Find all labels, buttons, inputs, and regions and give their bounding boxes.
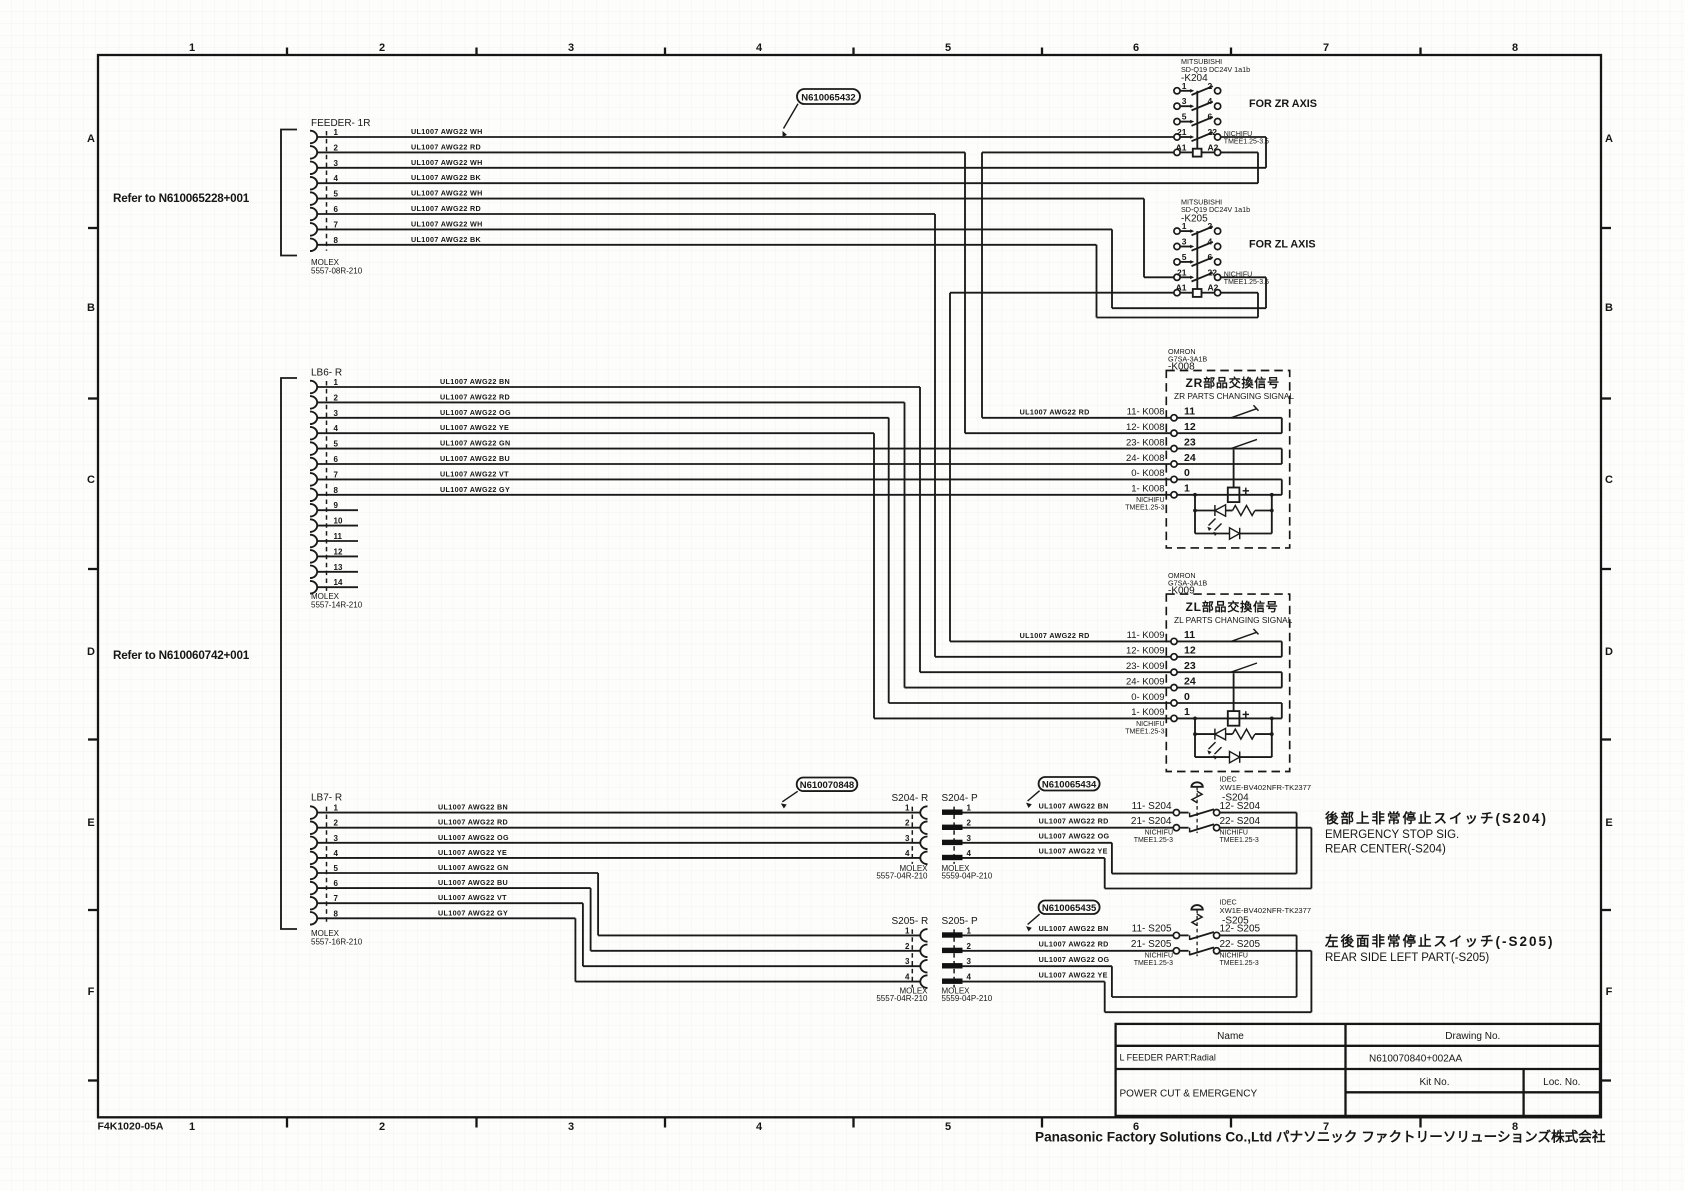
svg-text:UL1007 AWG22 BK: UL1007 AWG22 BK (411, 235, 482, 244)
svg-text:5557-16R-210: 5557-16R-210 (311, 938, 363, 947)
svg-text:XW1E-BV402NFR-TK2377: XW1E-BV402NFR-TK2377 (1220, 783, 1312, 792)
svg-text:UL1007 AWG22 WH: UL1007 AWG22 WH (411, 189, 483, 198)
svg-text:11- K008: 11- K008 (1127, 406, 1165, 417)
svg-text:24- K008: 24- K008 (1126, 453, 1165, 464)
svg-text:TMEE1.25-3: TMEE1.25-3 (1134, 837, 1173, 844)
svg-text:UL1007 AWG22 YE: UL1007 AWG22 YE (1039, 847, 1108, 856)
wire net S204 pin12 return loop (1111, 843, 1113, 874)
svg-text:POWER CUT & EMERGENCY: POWER CUT & EMERGENCY (1120, 1089, 1258, 1100)
svg-text:TMEE1.25-3: TMEE1.25-3 (1134, 960, 1173, 967)
relay K008 terminals (1171, 415, 1177, 421)
svg-text:11: 11 (1184, 629, 1195, 641)
svg-text:E: E (87, 817, 94, 829)
wire net LB7 pin7 to S205-R pin3 (VT) (317, 902, 583, 904)
svg-text:F4K1020-05A: F4K1020-05A (98, 1121, 164, 1133)
svg-text:N610070840+002AA: N610070840+002AA (1369, 1054, 1462, 1065)
svg-text:REAR SIDE LEFT PART(-S205): REAR SIDE LEFT PART(-S205) (1325, 952, 1489, 964)
svg-text:UL1007 AWG22 OG: UL1007 AWG22 OG (440, 408, 511, 417)
svg-text:UL1007 AWG22 RD: UL1007 AWG22 RD (411, 204, 481, 213)
svg-text:FOR ZL AXIS: FOR ZL AXIS (1249, 238, 1316, 250)
wire net LB6 pin2 to K009 pin24 (RD) (317, 401, 905, 403)
bracket for FEEDER-1R (281, 130, 297, 256)
svg-text:1: 1 (905, 926, 910, 935)
svg-text:S204- R: S204- R (892, 793, 929, 804)
svg-text:ZL部品交換信号: ZL部品交換信号 (1186, 599, 1279, 614)
svg-text:2: 2 (379, 1121, 385, 1133)
svg-text:NICHIFU: NICHIFU (1145, 952, 1173, 959)
svg-text:7: 7 (334, 220, 339, 229)
svg-text:21- S204: 21- S204 (1131, 816, 1172, 827)
svg-text:UL1007 AWG22 BN: UL1007 AWG22 BN (440, 377, 510, 386)
svg-text:2: 2 (905, 942, 910, 951)
callout N610065432 (797, 89, 860, 104)
relay K009 common 0-1 wiring (1177, 702, 1282, 704)
svg-text:NICHIFU: NICHIFU (1145, 829, 1173, 836)
svg-text:UL1007 AWG22 RD: UL1007 AWG22 RD (1039, 817, 1109, 826)
relay K008 contact 11-12 (1177, 417, 1282, 419)
emergency stop switch S205 mushroom head (1191, 905, 1202, 910)
svg-text:UL1007 AWG22 BU: UL1007 AWG22 BU (438, 878, 508, 887)
svg-text:5: 5 (334, 864, 339, 873)
svg-text:UL1007 AWG22 GY: UL1007 AWG22 GY (438, 908, 508, 917)
wire net LB6 pin5 to K008 pin23 (GN) (317, 448, 1171, 450)
relay K009 reverse diode branch (1195, 756, 1230, 758)
svg-text:3: 3 (1182, 96, 1187, 106)
svg-text:UL1007 AWG22 OG: UL1007 AWG22 OG (1039, 832, 1110, 841)
svg-text:0- K008: 0- K008 (1131, 468, 1164, 479)
wire net W8 FEEDER pin8 to K205 coil A2 (BK) (317, 244, 1097, 246)
svg-text:2: 2 (1208, 81, 1213, 91)
svg-text:LB7- R: LB7- R (311, 793, 342, 804)
svg-text:C: C (87, 474, 95, 486)
svg-text:2: 2 (334, 819, 339, 828)
svg-text:4: 4 (905, 973, 910, 982)
wire net W7 FEEDER pin7 to K205 pin22 (WH) (317, 228, 1112, 230)
svg-text:UL1007 AWG22 BK: UL1007 AWG22 BK (411, 173, 482, 182)
emergency stop switch S205 contact 11-12 (1173, 932, 1179, 938)
svg-text:FEEDER- 1R: FEEDER- 1R (311, 118, 370, 129)
wire net LB7 pin1 to S204-R pin1 (BN) (317, 812, 921, 814)
svg-text:12: 12 (1184, 645, 1196, 657)
svg-text:UL1007 AWG22 WH: UL1007 AWG22 WH (411, 219, 483, 228)
svg-text:24- K009: 24- K009 (1126, 676, 1165, 687)
svg-text:NICHIFU: NICHIFU (1220, 829, 1248, 836)
svg-text:ZL PARTS CHANGING SIGNAL: ZL PARTS CHANGING SIGNAL (1174, 615, 1293, 625)
svg-text:5: 5 (334, 190, 339, 199)
svg-text:4: 4 (905, 849, 910, 858)
relay K009 LED emission arrows (1209, 742, 1216, 749)
relay K205 actuator line (1196, 231, 1198, 289)
wire net LB6 pin4 to K009 pin1 (YE) (317, 432, 874, 434)
svg-text:5557-04R-210: 5557-04R-210 (876, 872, 928, 881)
svg-text:4: 4 (1208, 96, 1213, 106)
wire net LB7 pin4 to S204-R pin4 (YE) (317, 857, 921, 859)
svg-text:1: 1 (189, 1121, 195, 1133)
svg-text:5557-14R-210: 5557-14R-210 (311, 601, 363, 610)
svg-text:N610070848: N610070848 (800, 780, 854, 791)
relay K205 contacts (1174, 228, 1180, 234)
wire net LB6 pin3 to K009 pin0 (OG) (317, 417, 889, 419)
svg-text:3: 3 (967, 957, 972, 966)
svg-text:NICHIFU: NICHIFU (1136, 721, 1164, 728)
svg-text:3: 3 (334, 409, 339, 418)
svg-text:2: 2 (334, 393, 339, 402)
svg-text:B: B (87, 302, 95, 314)
svg-text:UL1007 AWG22 BU: UL1007 AWG22 BU (440, 454, 510, 463)
svg-text:N610065432: N610065432 (801, 93, 855, 104)
svg-text:UL1007 AWG22 RD: UL1007 AWG22 RD (411, 142, 481, 151)
svg-text:5: 5 (945, 42, 951, 54)
svg-text:6: 6 (334, 455, 339, 464)
svg-text:UL1007 AWG22 GN: UL1007 AWG22 GN (438, 863, 509, 872)
svg-text:5: 5 (1182, 252, 1187, 262)
svg-text:5: 5 (1182, 112, 1187, 122)
svg-text:1: 1 (905, 804, 910, 813)
relay K204 contacts (1174, 88, 1180, 94)
svg-text:4: 4 (756, 42, 763, 54)
svg-text:UL1007 AWG22 BN: UL1007 AWG22 BN (1039, 924, 1109, 933)
svg-text:23: 23 (1184, 660, 1196, 672)
title block table (1116, 1024, 1600, 1116)
svg-text:TMEE1.25-3: TMEE1.25-3 (1125, 728, 1164, 735)
svg-text:22- S205: 22- S205 (1220, 939, 1261, 950)
svg-text:2: 2 (967, 819, 972, 828)
svg-text:UL1007 AWG22 RD: UL1007 AWG22 RD (1020, 631, 1090, 640)
svg-text:Panasonic Factory Solutions Co: Panasonic Factory Solutions Co.,Ltd パナソニ… (1035, 1129, 1606, 1145)
svg-text:1: 1 (1182, 221, 1187, 231)
svg-text:22- S204: 22- S204 (1220, 816, 1261, 827)
svg-text:12- S204: 12- S204 (1220, 801, 1261, 812)
relay K009 dashed enclosure (1166, 594, 1289, 771)
svg-text:D: D (87, 646, 95, 658)
svg-text:2: 2 (379, 42, 385, 54)
callout N610070848 (797, 778, 858, 792)
svg-text:14: 14 (334, 578, 343, 587)
svg-text:1- K009: 1- K009 (1131, 707, 1164, 718)
svg-text:8: 8 (334, 236, 339, 245)
svg-text:11: 11 (334, 532, 343, 541)
svg-text:1: 1 (334, 128, 339, 137)
svg-text:8: 8 (1512, 42, 1518, 54)
svg-text:11- K009: 11- K009 (1127, 630, 1165, 641)
svg-text:TMEE1.25-3.5: TMEE1.25-3.5 (1224, 279, 1269, 286)
svg-text:Drawing No.: Drawing No. (1445, 1031, 1500, 1042)
wire net LB7 pin5 to S205-R pin1 (GN) (317, 872, 598, 874)
svg-text:N610065434: N610065434 (1042, 779, 1097, 790)
wire net S205 pin12 return loop (1111, 966, 1113, 997)
svg-text:左後面非常停止スイッチ(-S205): 左後面非常停止スイッチ(-S205) (1324, 933, 1555, 949)
wire net W2 FEEDER pin2 to K008 pin12 (RD) (317, 151, 965, 153)
svg-text:UL1007 AWG22 YE: UL1007 AWG22 YE (440, 423, 509, 432)
svg-text:UL1007 AWG22 OG: UL1007 AWG22 OG (438, 833, 509, 842)
svg-text:S205- R: S205- R (892, 916, 929, 927)
svg-text:TMEE1.25-3: TMEE1.25-3 (1125, 505, 1164, 512)
svg-text:REAR CENTER(-S204): REAR CENTER(-S204) (1325, 844, 1446, 856)
svg-text:E: E (1605, 817, 1612, 829)
emergency stop switch S204 contact 11-12 (1173, 810, 1179, 816)
svg-text:7: 7 (334, 470, 339, 479)
svg-text:C: C (1605, 474, 1613, 486)
svg-text:24: 24 (1184, 452, 1196, 464)
svg-text:6: 6 (1208, 252, 1213, 262)
emergency stop switch S204 contact 21-22 (1173, 825, 1179, 831)
callout N610065435 (1039, 901, 1100, 915)
svg-text:12: 12 (1184, 421, 1196, 433)
relay K008 LED and resistor branch (1194, 495, 1196, 534)
svg-text:1: 1 (334, 378, 339, 387)
svg-text:F: F (88, 986, 95, 998)
svg-text:4: 4 (334, 424, 339, 433)
svg-text:UL1007 AWG22 GN: UL1007 AWG22 GN (440, 439, 511, 448)
svg-text:0: 0 (1184, 467, 1190, 479)
svg-text:ZR部品交換信号: ZR部品交換信号 (1186, 375, 1280, 390)
svg-text:11- S204: 11- S204 (1132, 801, 1172, 812)
wire net LB7 pin8 to S205-R pin4 (GY) (317, 917, 575, 919)
svg-text:1: 1 (1184, 706, 1190, 718)
svg-text:UL1007 AWG22 BN: UL1007 AWG22 BN (1039, 801, 1109, 810)
wires S20x-P to switch S205 (963, 934, 1174, 936)
wire net K009 pin11 to K205 coil A1 (RD) (950, 292, 1174, 294)
svg-text:2: 2 (967, 942, 972, 951)
emergency stop switch S204 mushroom head (1191, 782, 1202, 787)
svg-text:3: 3 (905, 834, 910, 843)
svg-text:21: 21 (1177, 267, 1187, 277)
svg-text:7: 7 (334, 894, 339, 903)
svg-text:6: 6 (1133, 42, 1139, 54)
wire net W5 FEEDER pin5 to K205 pin21 (WH) (317, 198, 1144, 200)
svg-text:S205- P: S205- P (942, 916, 978, 927)
svg-text:4: 4 (334, 849, 339, 858)
wire net W6 FEEDER pin6 to K009 pin12 (RD) (317, 213, 935, 215)
svg-text:4: 4 (967, 973, 972, 982)
svg-text:EMERGENCY STOP SIG.: EMERGENCY STOP SIG. (1325, 829, 1459, 841)
relay K009 LED and resistor branch (1194, 718, 1196, 757)
svg-text:21- S205: 21- S205 (1131, 939, 1172, 950)
relay K009 coil (1233, 673, 1235, 711)
svg-text:1: 1 (334, 804, 339, 813)
svg-text:3: 3 (967, 834, 972, 843)
wire net LB7 pin2 to S204-R pin2 (RD) (317, 827, 921, 829)
svg-text:2: 2 (905, 819, 910, 828)
svg-text:TMEE1.25-3: TMEE1.25-3 (1220, 837, 1259, 844)
relay K008 contact 23-24 (1177, 448, 1282, 450)
svg-text:6: 6 (334, 205, 339, 214)
svg-text:5: 5 (334, 440, 339, 449)
drawing border frame (98, 55, 1601, 1117)
svg-text:UL1007 AWG22 RD: UL1007 AWG22 RD (438, 818, 508, 827)
stub wires LB6 pins 9-14 (317, 509, 358, 511)
svg-text:Kit No.: Kit No. (1419, 1077, 1449, 1088)
svg-text:3: 3 (568, 42, 574, 54)
svg-text:3: 3 (905, 957, 910, 966)
wire net S205 pin22 return loop (1104, 982, 1106, 1013)
wire net LB7 pin6 to S205-R pin2 (BU) (317, 887, 591, 889)
svg-text:9: 9 (334, 501, 339, 510)
svg-text:UL1007 AWG22 WH: UL1007 AWG22 WH (411, 127, 483, 136)
svg-text:NICHIFU: NICHIFU (1224, 131, 1252, 138)
svg-text:Name: Name (1217, 1031, 1244, 1042)
relay K008 reverse diode branch (1195, 533, 1230, 535)
wire net W4 FEEDER pin4 to K204 coil A2 (BK) (317, 182, 1258, 184)
svg-text:0: 0 (1184, 691, 1190, 703)
svg-text:UL1007 AWG22 BN: UL1007 AWG22 BN (438, 803, 508, 812)
wire net LB6 pin1 to K009 pin23 (BN) (317, 386, 920, 388)
relay K008 LED emission arrows (1209, 519, 1216, 526)
relay K008 coil (1233, 450, 1235, 488)
relay K204 actuator line (1196, 91, 1198, 149)
svg-text:A: A (1605, 133, 1613, 145)
svg-text:UL1007 AWG22 VT: UL1007 AWG22 VT (440, 469, 509, 478)
svg-text:UL1007 AWG22 WH: UL1007 AWG22 WH (411, 158, 483, 167)
svg-text:12- S205: 12- S205 (1220, 924, 1261, 935)
wire net W3 FEEDER pin3 to K204 pin22 (WH) (317, 167, 1266, 169)
svg-text:23- K009: 23- K009 (1126, 661, 1165, 672)
svg-text:4: 4 (967, 849, 972, 858)
svg-text:5557-04R-210: 5557-04R-210 (876, 994, 928, 1003)
wire net LB6 pin7 to K008 pin0 (VT) (317, 478, 1171, 480)
svg-text:L FEEDER PART:Radial: L FEEDER PART:Radial (1120, 1053, 1216, 1063)
svg-text:3: 3 (334, 159, 339, 168)
svg-text:1- K008: 1- K008 (1131, 484, 1164, 495)
svg-text:21: 21 (1177, 127, 1187, 137)
svg-text:XW1E-BV402NFR-TK2377: XW1E-BV402NFR-TK2377 (1220, 906, 1312, 915)
svg-text:12: 12 (334, 547, 343, 556)
svg-text:3: 3 (1182, 237, 1187, 247)
svg-text:23: 23 (1184, 436, 1196, 448)
svg-text:ZR PARTS CHANGING SIGNAL: ZR PARTS CHANGING SIGNAL (1174, 391, 1294, 401)
svg-text:NICHIFU: NICHIFU (1224, 271, 1252, 278)
relay K008 common 0-1 wiring (1177, 478, 1282, 480)
svg-text:1: 1 (967, 804, 972, 813)
svg-text:1: 1 (1184, 483, 1190, 495)
emergency stop switch S205 contact 21-22 (1173, 948, 1179, 954)
wire net K008 pin11 to K204 coil A1 (RD) (982, 151, 1174, 153)
svg-text:3: 3 (334, 834, 339, 843)
wire net S204 pin22 return loop (1104, 858, 1106, 889)
svg-text:5: 5 (945, 1121, 951, 1133)
wire net LB6 pin6 to K008 pin24 (BU) (317, 463, 1171, 465)
svg-text:2: 2 (334, 143, 339, 152)
svg-text:Refer to N610065228+001: Refer to N610065228+001 (113, 192, 250, 205)
svg-text:11- S205: 11- S205 (1132, 924, 1172, 935)
svg-text:5557-08R-210: 5557-08R-210 (311, 267, 363, 276)
svg-text:22: 22 (1208, 127, 1218, 137)
svg-text:F: F (1606, 986, 1613, 998)
svg-text:B: B (1605, 302, 1613, 314)
svg-text:10: 10 (334, 517, 343, 526)
svg-text:UL1007 AWG22 GY: UL1007 AWG22 GY (440, 485, 510, 494)
wire net LB7 pin3 to S204-R pin3 (OG) (317, 842, 921, 844)
callout N610065434 (1039, 777, 1100, 791)
svg-text:22: 22 (1208, 267, 1218, 277)
svg-text:後部上非常停止スイッチ(S204): 後部上非常停止スイッチ(S204) (1325, 810, 1548, 826)
svg-text:0- K009: 0- K009 (1131, 692, 1164, 703)
svg-text:5559-04P-210: 5559-04P-210 (942, 994, 993, 1003)
svg-text:2: 2 (1208, 221, 1213, 231)
bracket for LB6-R and LB7-R (281, 378, 297, 929)
relay K009 contact 11-12 (1177, 640, 1282, 642)
svg-text:TMEE1.25-3.5: TMEE1.25-3.5 (1224, 139, 1269, 146)
svg-text:23- K008: 23- K008 (1126, 437, 1165, 448)
svg-text:5559-04P-210: 5559-04P-210 (942, 872, 993, 881)
wires S20x-P to switch S204 (963, 812, 1174, 814)
svg-text:UL1007 AWG22 VT: UL1007 AWG22 VT (438, 893, 507, 902)
svg-text:11: 11 (1184, 406, 1195, 418)
svg-text:6: 6 (334, 879, 339, 888)
svg-text:NICHIFU: NICHIFU (1136, 497, 1164, 504)
svg-text:6: 6 (1208, 112, 1213, 122)
svg-text:12- K008: 12- K008 (1126, 422, 1165, 433)
relay K008 dashed enclosure (1166, 371, 1289, 548)
svg-text:8: 8 (334, 486, 339, 495)
wire net W1 FEEDER pin1 to K204 pin21 (WH) (317, 136, 1174, 138)
svg-text:LB6- R: LB6- R (311, 368, 342, 379)
svg-text:TMEE1.25-3: TMEE1.25-3 (1220, 960, 1259, 967)
relay K204 coil (1174, 149, 1180, 155)
svg-text:1: 1 (967, 926, 972, 935)
svg-text:UL1007 AWG22 RD: UL1007 AWG22 RD (1020, 407, 1090, 416)
svg-text:1: 1 (1182, 81, 1187, 91)
wire net LB6 pin8 to K008 pin1 (GY) (317, 494, 1171, 496)
relay K205 coil (1174, 290, 1180, 296)
svg-text:4: 4 (1208, 237, 1213, 247)
svg-text:Refer to N610060742+001: Refer to N610060742+001 (113, 649, 250, 662)
svg-text:1: 1 (189, 42, 195, 54)
svg-text:4: 4 (756, 1121, 763, 1133)
svg-text:D: D (1605, 646, 1613, 658)
relay K009 contact 23-24 (1177, 671, 1282, 673)
svg-text:N610065435: N610065435 (1042, 903, 1097, 914)
svg-text:S204- P: S204- P (942, 793, 978, 804)
svg-text:UL1007 AWG22 YE: UL1007 AWG22 YE (1039, 970, 1108, 979)
svg-text:8: 8 (334, 909, 339, 918)
svg-text:NICHIFU: NICHIFU (1220, 952, 1248, 959)
svg-text:FOR ZR AXIS: FOR ZR AXIS (1249, 98, 1317, 110)
svg-text:UL1007 AWG22 RD: UL1007 AWG22 RD (1039, 940, 1109, 949)
svg-text:UL1007 AWG22 RD: UL1007 AWG22 RD (440, 392, 510, 401)
svg-text:24: 24 (1184, 675, 1196, 687)
svg-text:13: 13 (334, 563, 343, 572)
svg-text:A: A (87, 133, 95, 145)
svg-text:7: 7 (1323, 42, 1329, 54)
svg-text:Loc. No.: Loc. No. (1543, 1077, 1580, 1088)
svg-text:4: 4 (334, 174, 339, 183)
svg-text:3: 3 (568, 1121, 574, 1133)
svg-text:UL1007 AWG22 OG: UL1007 AWG22 OG (1039, 955, 1110, 964)
relay K009 terminals (1171, 638, 1177, 644)
svg-text:12- K009: 12- K009 (1126, 646, 1165, 657)
svg-text:UL1007 AWG22 YE: UL1007 AWG22 YE (438, 848, 507, 857)
